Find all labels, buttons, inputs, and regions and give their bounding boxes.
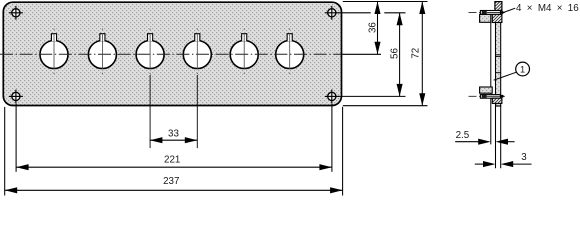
svg-text:56: 56 [389, 48, 400, 59]
svg-text:3: 3 [521, 152, 527, 163]
svg-text:221: 221 [164, 155, 180, 166]
svg-text:2.5: 2.5 [456, 130, 470, 141]
svg-text:1: 1 [520, 64, 525, 74]
svg-text:237: 237 [163, 176, 179, 187]
svg-text:72: 72 [410, 48, 421, 59]
svg-text:33: 33 [168, 128, 179, 139]
svg-text:36: 36 [367, 22, 378, 33]
svg-text:4 × M4 × 16: 4 × M4 × 16 [516, 3, 579, 14]
